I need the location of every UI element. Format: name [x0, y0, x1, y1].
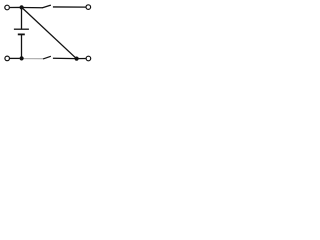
wire node C to bottom-right terminal	[77, 58, 86, 60]
battery B1 short plate	[18, 33, 25, 35]
wire node B to switch S2 pivot (faint)	[23, 58, 44, 60]
switch S1 blade (open)	[43, 5, 51, 7]
node C junction dot	[75, 57, 79, 61]
wire switch S1 fixed contact to top-right terminal	[53, 6, 86, 8]
wire switch S2 fixed contact to node C	[53, 57, 77, 59]
wire diagonal node A to node C	[22, 8, 77, 59]
wire battery positive lead	[21, 7, 23, 29]
terminal bottom-left	[5, 56, 10, 61]
terminal top-right	[86, 5, 91, 10]
node B junction dot	[20, 56, 24, 60]
wire top-left rail	[10, 6, 22, 8]
wire from node A to switch S1 pivot	[22, 7, 43, 9]
wire battery negative lead	[21, 34, 23, 58]
switch S2 blade (open)	[44, 56, 51, 58]
terminal top-left	[5, 5, 10, 10]
wire bottom-left rail	[10, 57, 20, 59]
node A junction dot	[20, 5, 24, 9]
battery B1 long plate	[14, 28, 29, 30]
terminal bottom-right	[86, 56, 91, 61]
